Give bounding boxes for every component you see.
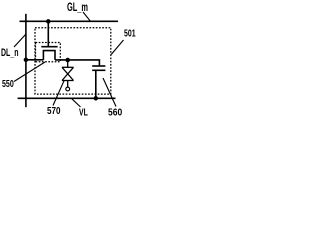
node gate junction dot xyxy=(46,19,51,24)
svg-text:570: 570 xyxy=(47,105,61,117)
leader DL_n xyxy=(14,34,26,47)
transistor 550 xyxy=(41,47,57,60)
leader 570 xyxy=(53,81,64,106)
data line DL_n xyxy=(25,14,27,107)
wire source to data line xyxy=(26,59,44,61)
gate line GL_m xyxy=(20,20,119,22)
svg-text:550: 550 xyxy=(2,78,14,90)
svg-text:DL_n: DL_n xyxy=(1,47,19,59)
svg-text:GL_m: GL_m xyxy=(67,2,88,14)
wire drain node to capacitor xyxy=(55,60,99,66)
node source junction dot xyxy=(24,58,29,63)
liquid crystal element 570 xyxy=(62,60,74,87)
leader VL xyxy=(72,98,81,107)
leader 560 xyxy=(103,78,116,107)
wire gate connection xyxy=(47,21,49,46)
transistor dashed box 550 xyxy=(36,43,61,62)
leader 550 xyxy=(14,62,45,82)
leader GL_m xyxy=(83,12,91,21)
common line VL xyxy=(18,97,116,99)
node VL junction dot xyxy=(94,96,99,101)
terminal circle xyxy=(66,87,70,91)
svg-text:560: 560 xyxy=(108,107,122,119)
svg-text:VL: VL xyxy=(79,107,88,119)
capacitor 560 xyxy=(92,66,105,98)
svg-text:501: 501 xyxy=(124,28,136,40)
leader 501 xyxy=(111,40,123,55)
pixel boundary dashed box 501 xyxy=(35,28,111,94)
node pixel junction dot xyxy=(65,58,70,63)
